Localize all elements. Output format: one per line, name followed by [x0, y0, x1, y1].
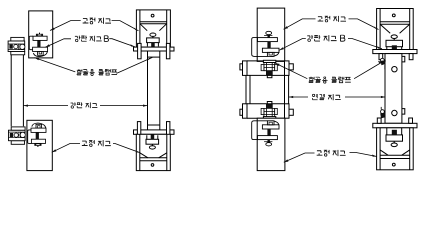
steel-plate clamp B top-center, G-clamp face view — [147, 33, 160, 47]
dimension 연결 지그 (between plate and column) — [312, 94, 340, 100]
leader right of 고정지그 top-left — [112, 21, 139, 31]
label 철골용 클램프 (left assembly) — [77, 69, 117, 75]
label 고정 지그 (top-left assembly) — [83, 18, 111, 24]
label 고정 지그 (bottom-left assembly) — [82, 140, 111, 146]
dimension 강판 지그 (between columns) — [71, 102, 98, 108]
bolt tab right (bottom-right flange) — [409, 118, 413, 123]
splice junction lower (right assembly) — [240, 102, 293, 119]
label 철골용 클램프 (right assembly) — [309, 77, 351, 84]
channel bracket bottom-right — [377, 128, 414, 170]
leader right of 강판지그B right — [348, 39, 382, 49]
bolt tab left (top-center flange) — [138, 43, 142, 58]
channel bracket top-center (고정 지그) — [136, 10, 170, 47]
clamp seam line lower — [148, 124, 160, 126]
steel-plate clamp B top-right, G-clamp face view — [386, 35, 403, 50]
label 강판 지그 B (left assembly) — [75, 36, 109, 42]
lever clamp knob upper (철골용 클램프) — [380, 58, 385, 69]
channel bracket top-right (고정 지그) — [377, 9, 414, 50]
flange plate bottom-center — [134, 130, 175, 134]
steel-plate clamp B bottom-center, G-clamp face view inverted — [146, 134, 159, 149]
leader left of 강판지그B left — [45, 39, 71, 47]
fixed jig plate bottom-left (고정 지그) — [27, 120, 52, 170]
leader right of 철골용클램프 left — [117, 57, 153, 73]
splice side bars (connecting bars between junctions) — [246, 75, 289, 103]
center column (between flanges) — [148, 51, 160, 130]
label 고정 지그 (top-right assembly) — [318, 16, 346, 22]
bolt tab left (bottom-right flange) — [377, 118, 381, 123]
bolt tab right (top-right flange) — [409, 54, 413, 60]
dimension line 강판지그 — [23, 105, 147, 107]
steel-plate clamp B (right assembly bottom), G-clamp profile inverted — [252, 121, 279, 146]
clamped steel column (연결 지그 member) — [385, 54, 405, 124]
leader left of 강판지그B right — [279, 39, 306, 51]
label 강판 지그 B (right assembly) — [307, 35, 345, 41]
leader right of 고정지그 bottom-right — [350, 153, 377, 157]
flange plate bottom-right — [373, 123, 417, 128]
steel-plate clamp B bottom-right, G-clamp face view inverted — [386, 128, 403, 147]
steel plate top (right assembly, face view) — [257, 8, 285, 61]
steel-plate clamp B (right assembly top), G-clamp profile — [252, 31, 279, 56]
bolt tab left (top-right flange) — [379, 54, 383, 60]
lever clamp knob lower — [380, 107, 385, 119]
channel bracket bottom-center — [136, 134, 170, 170]
leader left of 고정지그 top-right — [284, 19, 316, 29]
label 고정 지그 (bottom-right assembly) — [317, 150, 346, 156]
steel-frame clamp bottom-left (철골용 클램프) — [9, 127, 26, 144]
left column (steel bar between clamps) — [11, 55, 23, 126]
steel-frame clamp top-left (철골용 클램프), horizontal screw clamp — [8, 37, 25, 54]
steel-plate clamp B bottom-left, G-clamp profile inverted — [28, 123, 46, 147]
splice junction upper (right assembly) — [240, 60, 293, 77]
steel plate bottom (right assembly, face view) — [257, 118, 285, 170]
leader left of 철골용클램프 left — [35, 58, 76, 72]
steel-plate clamp B top-left (강판 지그 B), G-clamp profile — [29, 33, 47, 57]
bolt tab right (top-center flange) — [166, 43, 170, 58]
bolt tab right (bottom-center flange) — [167, 122, 170, 140]
flange plate top-center — [134, 47, 175, 51]
bolt tab left (bottom-center flange) — [137, 122, 140, 140]
leader left of 철골용클램프 right — [275, 63, 307, 79]
leader right of 강판지그B left — [109, 39, 135, 47]
flange plate top-right — [373, 50, 417, 54]
clamp seam line upper — [148, 56, 160, 58]
leader right of 고정지그 bottom-left — [113, 144, 140, 153]
leader left of 고정지그 top-left — [50, 21, 81, 31]
leader left of 고정지그 bottom-left — [52, 144, 80, 153]
dimension line 연결지그 — [289, 96, 386, 98]
leader right of 철골용클램프 right — [354, 62, 382, 79]
fixed jig plate top-left (고정 지그) — [29, 11, 53, 58]
leader left of 고정지그 bottom-right — [284, 153, 315, 162]
leader right of 고정지그 top-right — [349, 19, 379, 30]
